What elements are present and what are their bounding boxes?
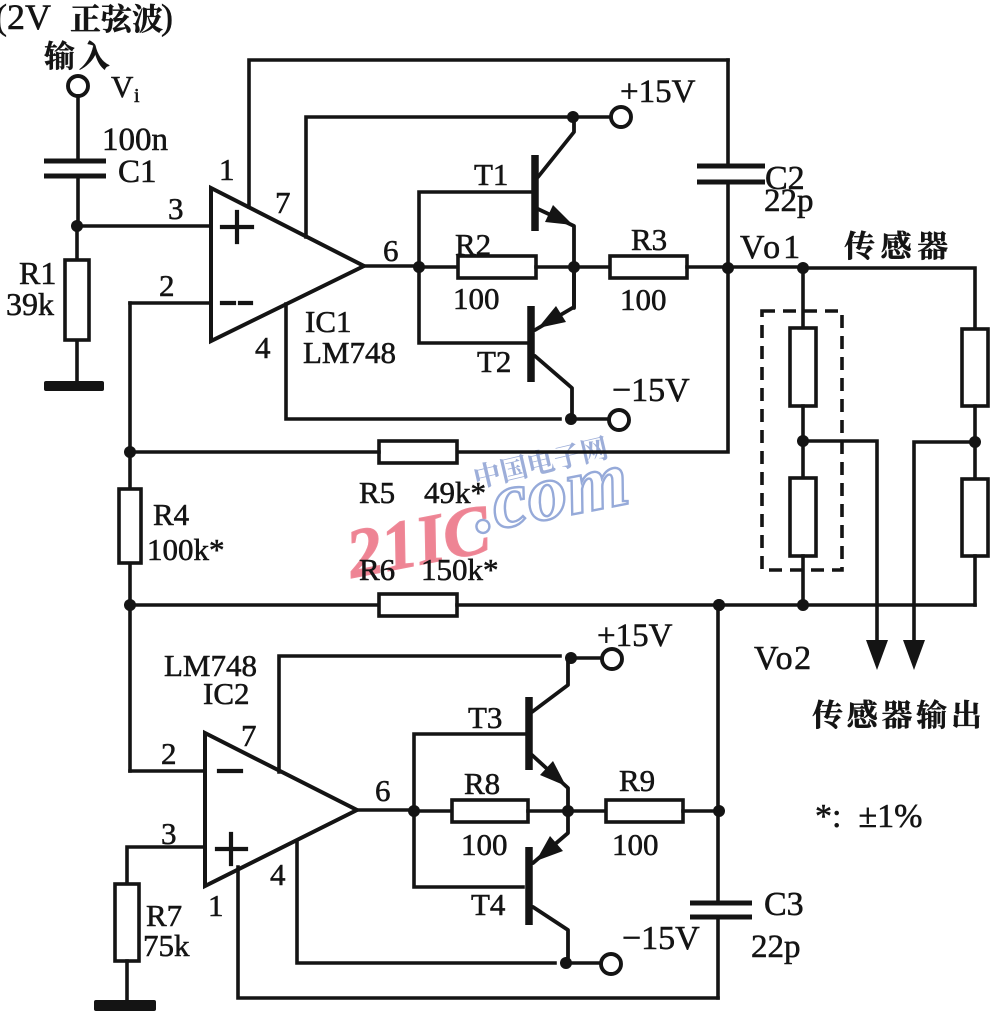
svg-text:R4: R4 <box>153 497 190 532</box>
transistor T4 <box>525 847 533 925</box>
wire left feedback vertical <box>128 303 132 771</box>
terminal -15V upper <box>609 410 629 430</box>
wire pin4 V- <box>286 304 560 419</box>
op-amp IC2 LM748 <box>205 733 357 886</box>
ground (R7) <box>94 1000 156 1011</box>
wire Vo1 to right column <box>803 268 975 329</box>
IC2 minus input symbol <box>219 769 241 773</box>
svg-text:100: 100 <box>461 827 508 862</box>
svg-text:100k*: 100k* <box>147 532 225 567</box>
svg-text:100n: 100n <box>102 122 168 158</box>
bridge left lower resistor <box>790 478 816 556</box>
svg-text:7: 7 <box>275 185 291 220</box>
node bridge left bottom <box>797 599 809 611</box>
node output IC2 <box>408 805 420 817</box>
svg-text:+15V: +15V <box>597 618 673 654</box>
svg-text:75k: 75k <box>143 928 190 963</box>
capacitor C2 22p <box>697 166 765 182</box>
svg-text:2: 2 <box>159 268 175 303</box>
node R5/R4 junction <box>124 446 136 458</box>
node Vo1 <box>797 262 809 274</box>
svg-text:R3: R3 <box>631 222 667 257</box>
node pin7 +15V junction <box>567 111 579 123</box>
text label label 传感器输出 <box>813 699 980 728</box>
node -15V lower junction <box>560 957 572 969</box>
wire pin1 comp to top <box>249 60 728 207</box>
transistor T3 <box>525 697 533 770</box>
watermark .com <box>464 434 636 550</box>
svg-text:6: 6 <box>375 773 391 808</box>
IC2 plus input symbol <box>217 834 246 864</box>
wire pin2 inverting input <box>130 301 211 305</box>
svg-text:100: 100 <box>612 827 659 862</box>
op-amp IC1 LM748 <box>211 188 364 341</box>
svg-text:R9: R9 <box>619 763 655 798</box>
IC1 plus input symbol <box>222 212 252 242</box>
node bridge left mid <box>797 435 809 447</box>
svg-text:C3: C3 <box>764 886 804 923</box>
svg-text:1: 1 <box>208 888 224 923</box>
svg-text:(2V: (2V <box>0 0 51 37</box>
svg-text:3: 3 <box>168 191 184 226</box>
resistor R9 100 <box>568 809 606 813</box>
watermark chinese 中国电子网 <box>473 434 609 490</box>
arrow sensor output right <box>903 640 925 670</box>
svg-text:100: 100 <box>620 282 667 317</box>
ground (input) <box>44 381 104 391</box>
wire pin7 V+ <box>306 117 610 237</box>
svg-text:−15V: −15V <box>612 372 690 409</box>
svg-text:2: 2 <box>161 736 177 771</box>
svg-text:R6: R6 <box>359 552 395 587</box>
svg-text:T2: T2 <box>477 344 511 379</box>
text label label 传感器 <box>845 231 948 260</box>
svg-text:R8: R8 <box>464 766 500 801</box>
IC1 minus input symbol <box>222 301 251 305</box>
input terminal Vi <box>68 76 88 96</box>
svg-text:IC2: IC2 <box>203 676 250 711</box>
resistor R7 75k <box>115 884 139 961</box>
wire C1 to node <box>76 178 80 226</box>
svg-text:4: 4 <box>270 857 286 892</box>
svg-text:49k*: 49k* <box>424 475 486 510</box>
capacitor C1 100n <box>44 161 106 176</box>
svg-text:V: V <box>111 69 134 104</box>
svg-text:*: ±1%: *: ±1% <box>815 798 922 835</box>
wire bridge left tap <box>803 441 877 646</box>
dashed sensor box <box>762 311 842 570</box>
bridge right upper resistor <box>962 329 988 406</box>
svg-text:T4: T4 <box>471 887 506 922</box>
terminal -15V lower <box>601 954 621 974</box>
node pin4 -15V junction <box>565 413 577 425</box>
arrow sensor output left <box>866 640 888 670</box>
svg-text:6: 6 <box>383 233 399 268</box>
node R9 output junction <box>713 805 725 817</box>
feedback resistor R5 49k* <box>457 268 728 452</box>
svg-text:7: 7 <box>241 718 257 753</box>
node Vo2 column top <box>713 599 725 611</box>
wire IC2 pin3 <box>127 847 205 884</box>
output column / C3 <box>716 605 720 998</box>
node output IC1 <box>413 261 425 273</box>
wire top right vertical <box>726 60 730 268</box>
resistor R1 39k <box>75 226 79 383</box>
svg-text:100: 100 <box>453 281 500 316</box>
resistor R6 150k* <box>130 603 379 607</box>
node Vo2 <box>713 599 725 611</box>
terminal +15V lower <box>602 649 622 669</box>
svg-text:IC1: IC1 <box>305 304 352 339</box>
svg-text:C1: C1 <box>118 154 157 190</box>
wire IC2 pin1 comp bottom <box>238 867 718 998</box>
node bridge right mid <box>969 436 981 448</box>
svg-text:i: i <box>134 85 140 107</box>
svg-text:R5: R5 <box>359 475 395 510</box>
resistor R8 100 <box>452 800 528 822</box>
svg-text:+15V: +15V <box>620 74 696 110</box>
svg-text:1: 1 <box>219 152 235 187</box>
wire IC2 pin7 V+ <box>279 656 560 772</box>
svg-text:39k: 39k <box>6 286 54 322</box>
bridge right lower resistor <box>962 479 988 556</box>
node R4/R6 junction <box>124 599 136 611</box>
resistor R3 100 <box>574 265 610 269</box>
node emitter junction <box>568 261 580 273</box>
bridge left upper resistor <box>801 268 805 328</box>
wire node to pin3 <box>77 224 211 228</box>
svg-text:LM748: LM748 <box>303 335 396 370</box>
node output/C2 junction <box>722 262 734 274</box>
text label label 正弦波 <box>71 4 163 33</box>
wire base drive loop lower <box>414 734 527 887</box>
svg-text:22p: 22p <box>764 183 814 219</box>
watermark 21IC <box>339 490 497 593</box>
svg-text:22p: 22p <box>751 929 801 965</box>
terminal +15V upper <box>611 107 631 127</box>
wire base drive loop upper <box>419 192 533 343</box>
wire bridge right tap <box>914 442 975 646</box>
resistor R2 100 <box>458 256 536 278</box>
wire terminal to C1 <box>76 96 80 159</box>
capacitor C3 22p <box>690 903 752 917</box>
node +15V lower junction <box>565 652 577 664</box>
transistor T2 <box>527 306 535 382</box>
wire IC2 pin2 <box>130 769 205 773</box>
wire IC2 pin4 V- <box>297 843 555 963</box>
svg-text:Vo1: Vo1 <box>740 229 803 266</box>
node input junction <box>71 220 83 232</box>
svg-text:): ) <box>161 0 173 37</box>
svg-text:−15V: −15V <box>622 920 700 957</box>
transistor T1 <box>531 155 539 231</box>
svg-text:T3: T3 <box>468 700 502 735</box>
wire pin6 output <box>364 266 458 267</box>
svg-text:T1: T1 <box>474 157 508 192</box>
resistor R4 100k* <box>119 489 141 563</box>
svg-text:4: 4 <box>255 330 271 365</box>
text label label 输入 <box>44 40 109 69</box>
node emitter junction lower <box>562 805 574 817</box>
svg-text:R2: R2 <box>455 227 491 262</box>
svg-text:Vo2: Vo2 <box>754 640 813 677</box>
svg-text:150k*: 150k* <box>421 552 499 587</box>
wire IC2 output <box>357 810 452 811</box>
